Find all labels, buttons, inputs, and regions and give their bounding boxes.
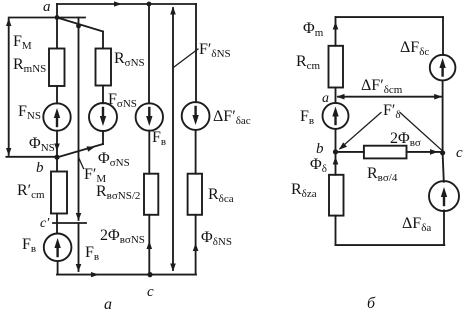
wire bottom rail [57, 274, 196, 276]
svg-text:RmNS: RmNS [13, 56, 46, 75]
node c [440, 150, 445, 155]
node junction top rail / branch FB [147, 2, 152, 7]
svg-text:Rcm: Rcm [296, 53, 321, 72]
source dF_deltaa [429, 181, 459, 211]
label F'_delta with leaders to b and c [340, 113, 381, 149]
svg-text:RвσNS/2: RвσNS/2 [96, 183, 140, 202]
svg-text:Fв: Fв [85, 244, 99, 263]
resistor R_cm [329, 46, 344, 88]
measuring arrow F_M [8, 19, 10, 155]
wire right vertical top [442, 17, 444, 55]
svg-text:б: б [367, 295, 376, 312]
wire R_mNS to F_NS [56, 86, 58, 103]
svg-text:R′cm: R′cm [17, 182, 45, 201]
label F'_M with leader [79, 158, 84, 169]
svg-text:Fв: Fв [152, 129, 166, 148]
svg-text:Φδ: Φδ [310, 156, 327, 175]
wire dF_deltac to node c [442, 80, 444, 152]
resistor R_vsigmaNS/2 [144, 174, 158, 215]
svg-text:ΦσNS: ΦσNS [98, 150, 130, 169]
wire branch 3 from top junction [148, 4, 150, 103]
svg-text:ΔFδa: ΔFδa [402, 215, 431, 234]
wire node a to R_mNS [56, 18, 58, 49]
wire bottom rail [336, 244, 445, 246]
wire top rail [57, 3, 196, 5]
wire node b down with flux arrow Phi_delta [335, 152, 337, 175]
svg-text:Φm: Φm [303, 20, 324, 39]
wire to R_deltaca [195, 130, 197, 174]
svg-text:F′δ: F′δ [383, 102, 401, 121]
resistor R_sigmaNS [96, 49, 112, 86]
resistor R_vsigma/4 [364, 146, 407, 159]
svg-text:Rвσ/4: Rвσ/4 [367, 165, 398, 184]
resistor R_mNS [49, 49, 65, 87]
wire branch 4 from top rail corner [195, 4, 197, 102]
svg-text:RσNS: RσNS [114, 50, 145, 69]
node c' tick [53, 222, 86, 224]
wire F_NS to node b with flux arrow [56, 131, 58, 157]
wire dF_deltaa to bottom rail [443, 210, 445, 245]
svg-text:FM: FM [13, 33, 32, 52]
wire diagonal to node b with flux arrow [58, 144, 104, 157]
svg-text:c: c [147, 284, 154, 300]
svg-text:2ΦвσNS: 2ΦвσNS [100, 227, 145, 246]
wire R_sigmaNS to F_sigmaNS [102, 86, 104, 104]
svg-text:a: a [322, 91, 329, 106]
node b [333, 149, 338, 154]
svg-text:ΔF′δcm: ΔF′δcm [361, 77, 403, 96]
node b [54, 155, 59, 160]
arrow on bottom rail [91, 272, 99, 277]
svg-text:F′δNS: F′δNS [199, 41, 231, 60]
source dF'_deltaac [182, 102, 210, 130]
wire R'_cm to F_B source [56, 214, 58, 234]
wire riser from node a to top rail [56, 4, 58, 18]
wire tick at node-a level [9, 17, 85, 19]
svg-text:FNS: FNS [18, 103, 41, 122]
svg-text:c′: c′ [40, 216, 50, 231]
svg-text:2Φвσ: 2Φвσ [390, 130, 421, 149]
node a [55, 15, 60, 20]
resistor R'_cm [51, 172, 67, 214]
svg-text:a: a [43, 0, 51, 15]
measuring line F_B (lower part of rail) [78, 223, 80, 271]
wire F_B to R_vsigmaNS/2 [148, 131, 150, 174]
svg-text:b: b [316, 141, 324, 157]
svg-text:Fв: Fв [300, 108, 314, 127]
wire node c to dF_deltaa [443, 153, 444, 182]
svg-text:c: c [456, 145, 463, 161]
wire to R_sigmaNS [102, 32, 104, 49]
wire R_vsigmaNS/2 to bottom rail with flux arrow [148, 215, 150, 275]
wire node b to R_vsigma/4 [336, 151, 364, 153]
label F'_deltaNS with leader [174, 49, 198, 67]
wire F_sigmaNS down [102, 131, 104, 144]
wire F_B to bottom rail [57, 261, 59, 275]
svg-text:Rδza: Rδza [291, 181, 317, 200]
svg-text:а: а [104, 296, 112, 312]
svg-text:ΦδNS: ΦδNS [201, 229, 232, 248]
source F_B (bottom left) [44, 234, 72, 262]
wire left vertical top with flux arrow Phi_m [335, 17, 337, 46]
svg-text:ΦNS: ΦNS [29, 135, 55, 154]
resistor R_deltaza [329, 175, 344, 216]
source F_sigmaNS [89, 103, 117, 131]
arrow on top rail [114, 1, 122, 6]
wire top rail [336, 16, 444, 18]
wire tick at node-b level [6, 156, 57, 158]
svg-text:Rδca: Rδca [208, 186, 234, 205]
node dot on diagonal [76, 24, 81, 29]
measuring line F'_M / F_B rail [78, 18, 80, 221]
wire diagonal node a to branch R_sigmaNS [57, 18, 103, 32]
node junction bottom rail / branch 3 [147, 272, 152, 277]
wire R_deltaza to bottom rail [335, 216, 337, 246]
wire R_vsigma/4 to node c with flux arrow [407, 151, 443, 153]
svg-text:ΔFδc: ΔFδc [400, 39, 429, 58]
svg-text:Fв: Fв [22, 236, 36, 255]
wire R_deltaca to bottom rail corner with flux arrow [195, 215, 197, 275]
source F_NS [43, 103, 70, 130]
source F_B (branch 3) [136, 103, 163, 130]
svg-text:ΔF′δас: ΔF′δас [213, 108, 251, 127]
measuring line F'_deltaNS (double arrow) [172, 8, 174, 270]
source dF_deltac [430, 55, 456, 81]
source F_v [323, 103, 349, 129]
wire F_v to node b [335, 129, 337, 152]
measuring arrow dF'_deltacm [338, 96, 441, 98]
svg-text:b: b [36, 160, 44, 176]
wire node b to R'_cm [56, 157, 58, 171]
wire R_cm to F_v [335, 88, 337, 103]
resistor R_deltaca [188, 174, 202, 215]
